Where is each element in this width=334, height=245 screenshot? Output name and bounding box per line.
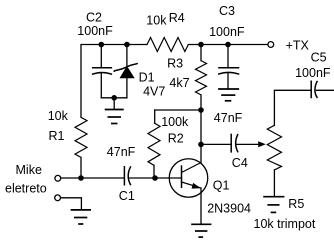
- svg-text:4k7: 4k7: [169, 76, 189, 90]
- node dot D1 top: [124, 42, 130, 48]
- svg-text:100nF: 100nF: [209, 25, 245, 39]
- wiper arrow: [258, 141, 266, 147]
- svg-text:R2: R2: [168, 132, 184, 146]
- capacitor C1: [124, 166, 181, 186]
- resistor R3: [196, 45, 207, 111]
- transistor Q1: [169, 159, 208, 225]
- svg-text:R3: R3: [167, 57, 183, 71]
- ground under C3: [218, 89, 239, 101]
- terminal mike hot: [55, 175, 61, 181]
- svg-text:+TX: +TX: [286, 39, 310, 53]
- svg-text:100nF: 100nF: [295, 66, 331, 80]
- svg-text:R4: R4: [169, 11, 185, 25]
- svg-text:10k trimpot: 10k trimpot: [254, 217, 316, 231]
- wire top rail left segment: [81, 45, 147, 118]
- svg-text:C3: C3: [219, 4, 235, 18]
- svg-text:C2: C2: [86, 10, 102, 24]
- resistor R2: [148, 110, 201, 178]
- svg-text:47nF: 47nF: [214, 111, 243, 125]
- wire input to C1: [61, 177, 124, 179]
- svg-text:C5: C5: [311, 51, 327, 65]
- node dot C3 top: [225, 42, 231, 48]
- zener diode D1: [114, 45, 138, 98]
- ground under C2/D1: [105, 98, 124, 124]
- svg-text:100k: 100k: [161, 115, 189, 129]
- wire C4 branch: [201, 143, 231, 145]
- svg-text:Mike: Mike: [16, 163, 42, 177]
- svg-text:eletreto: eletreto: [5, 182, 47, 196]
- ground under R5: [263, 197, 284, 213]
- terminal +TX: [268, 42, 274, 48]
- node dot C4 tap: [198, 142, 204, 148]
- wire to input ground: [61, 198, 82, 210]
- node dot R2/R3: [198, 107, 204, 113]
- svg-text:C1: C1: [119, 189, 135, 203]
- svg-text:R5: R5: [288, 197, 304, 211]
- capacitor C3: [218, 45, 239, 90]
- svg-text:Q1: Q1: [213, 178, 230, 192]
- svg-text:D1: D1: [139, 71, 155, 85]
- node dot C2 top: [99, 42, 105, 48]
- ground input: [71, 210, 91, 224]
- node dot bottom join: [111, 95, 117, 101]
- svg-text:4V7: 4V7: [143, 85, 165, 99]
- svg-text:100nF: 100nF: [77, 24, 113, 38]
- svg-text:10k: 10k: [48, 109, 69, 123]
- wire C2/D1 bottom joining: [101, 97, 127, 99]
- svg-text:10k: 10k: [146, 14, 167, 28]
- trimpot R5: [267, 90, 311, 196]
- svg-text:47nF: 47nF: [107, 145, 136, 159]
- node dot R1 bottom: [78, 175, 84, 181]
- wire top rail right segment: [188, 44, 267, 46]
- capacitor C5: [311, 81, 334, 99]
- ground under Q1 emitter: [191, 224, 211, 237]
- terminal mike ground: [55, 195, 61, 201]
- node dot R2 bottom: [152, 175, 158, 181]
- svg-text:R1: R1: [49, 129, 65, 143]
- wire collector column: [200, 110, 202, 163]
- resistor R1: [75, 117, 87, 178]
- svg-text:2N3904: 2N3904: [207, 201, 251, 215]
- capacitor C4: [231, 134, 259, 153]
- capacitor C2: [92, 45, 112, 98]
- svg-text:C4: C4: [232, 156, 248, 170]
- resistor R4: [147, 38, 188, 52]
- node dot R3 top: [198, 42, 204, 48]
